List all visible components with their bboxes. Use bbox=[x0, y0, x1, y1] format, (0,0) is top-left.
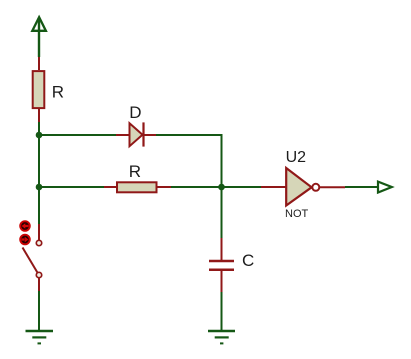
svg-text:R: R bbox=[52, 83, 64, 102]
switch SW1 bbox=[23, 240, 42, 277]
pin stub R1 top bbox=[38, 57, 40, 70]
ground (under capacitor) bbox=[208, 331, 235, 343]
wire switch to ground bbox=[38, 291, 40, 331]
wire U2 output to terminal bbox=[345, 186, 378, 188]
wire node B down to switch bbox=[38, 187, 40, 224]
pin stub R2 left bbox=[104, 186, 117, 188]
pin stub U2 output bbox=[320, 186, 345, 188]
wire R2 to node C bbox=[171, 186, 222, 188]
output terminal arrow bbox=[378, 182, 392, 193]
svg-text:NOT: NOT bbox=[285, 208, 309, 220]
switch actuator button down bbox=[20, 235, 30, 245]
resistor R2 bbox=[117, 182, 157, 192]
switch actuator button up bbox=[20, 221, 30, 231]
pin stub C1 bottom bbox=[221, 271, 223, 292]
diode D bbox=[130, 122, 144, 146]
resistor R1 bbox=[33, 71, 45, 108]
node C junction dot bbox=[218, 184, 225, 191]
op-amp U2 NOT gate bbox=[286, 168, 319, 206]
pin stub switch bottom bbox=[38, 278, 40, 291]
wire diode cathode to corner bbox=[156, 135, 222, 187]
svg-text:D: D bbox=[129, 103, 141, 122]
pin stub C1 top bbox=[221, 238, 223, 260]
node B junction dot bbox=[36, 184, 43, 191]
wire node B to R2 pin bbox=[39, 186, 104, 188]
pin stub R2 right bbox=[157, 186, 171, 188]
pin stub U2 input bbox=[261, 186, 286, 188]
pin stub diode anode bbox=[116, 134, 129, 136]
power terminal VCC arrow bbox=[32, 17, 46, 31]
pin stub R1 bottom bbox=[38, 109, 40, 122]
wire C1 to ground bbox=[221, 292, 223, 331]
svg-text:U2: U2 bbox=[286, 149, 307, 166]
pin stub diode cathode bbox=[143, 134, 156, 136]
capacitor C bbox=[209, 261, 234, 270]
ground (under switch) bbox=[26, 331, 54, 343]
pin stub switch top bbox=[38, 224, 40, 240]
svg-text:R: R bbox=[129, 162, 141, 181]
node A junction dot bbox=[36, 132, 43, 139]
wire node C down to C1 pin bbox=[221, 187, 223, 238]
wire node A to diode anode bbox=[39, 134, 116, 136]
wire node C to U2 input bbox=[222, 186, 262, 188]
svg-text:C: C bbox=[242, 251, 254, 270]
wire VCC to R1 pin bbox=[38, 18, 40, 57]
wire node A to node B bbox=[38, 135, 40, 187]
wire R1 to node A bbox=[38, 122, 40, 135]
